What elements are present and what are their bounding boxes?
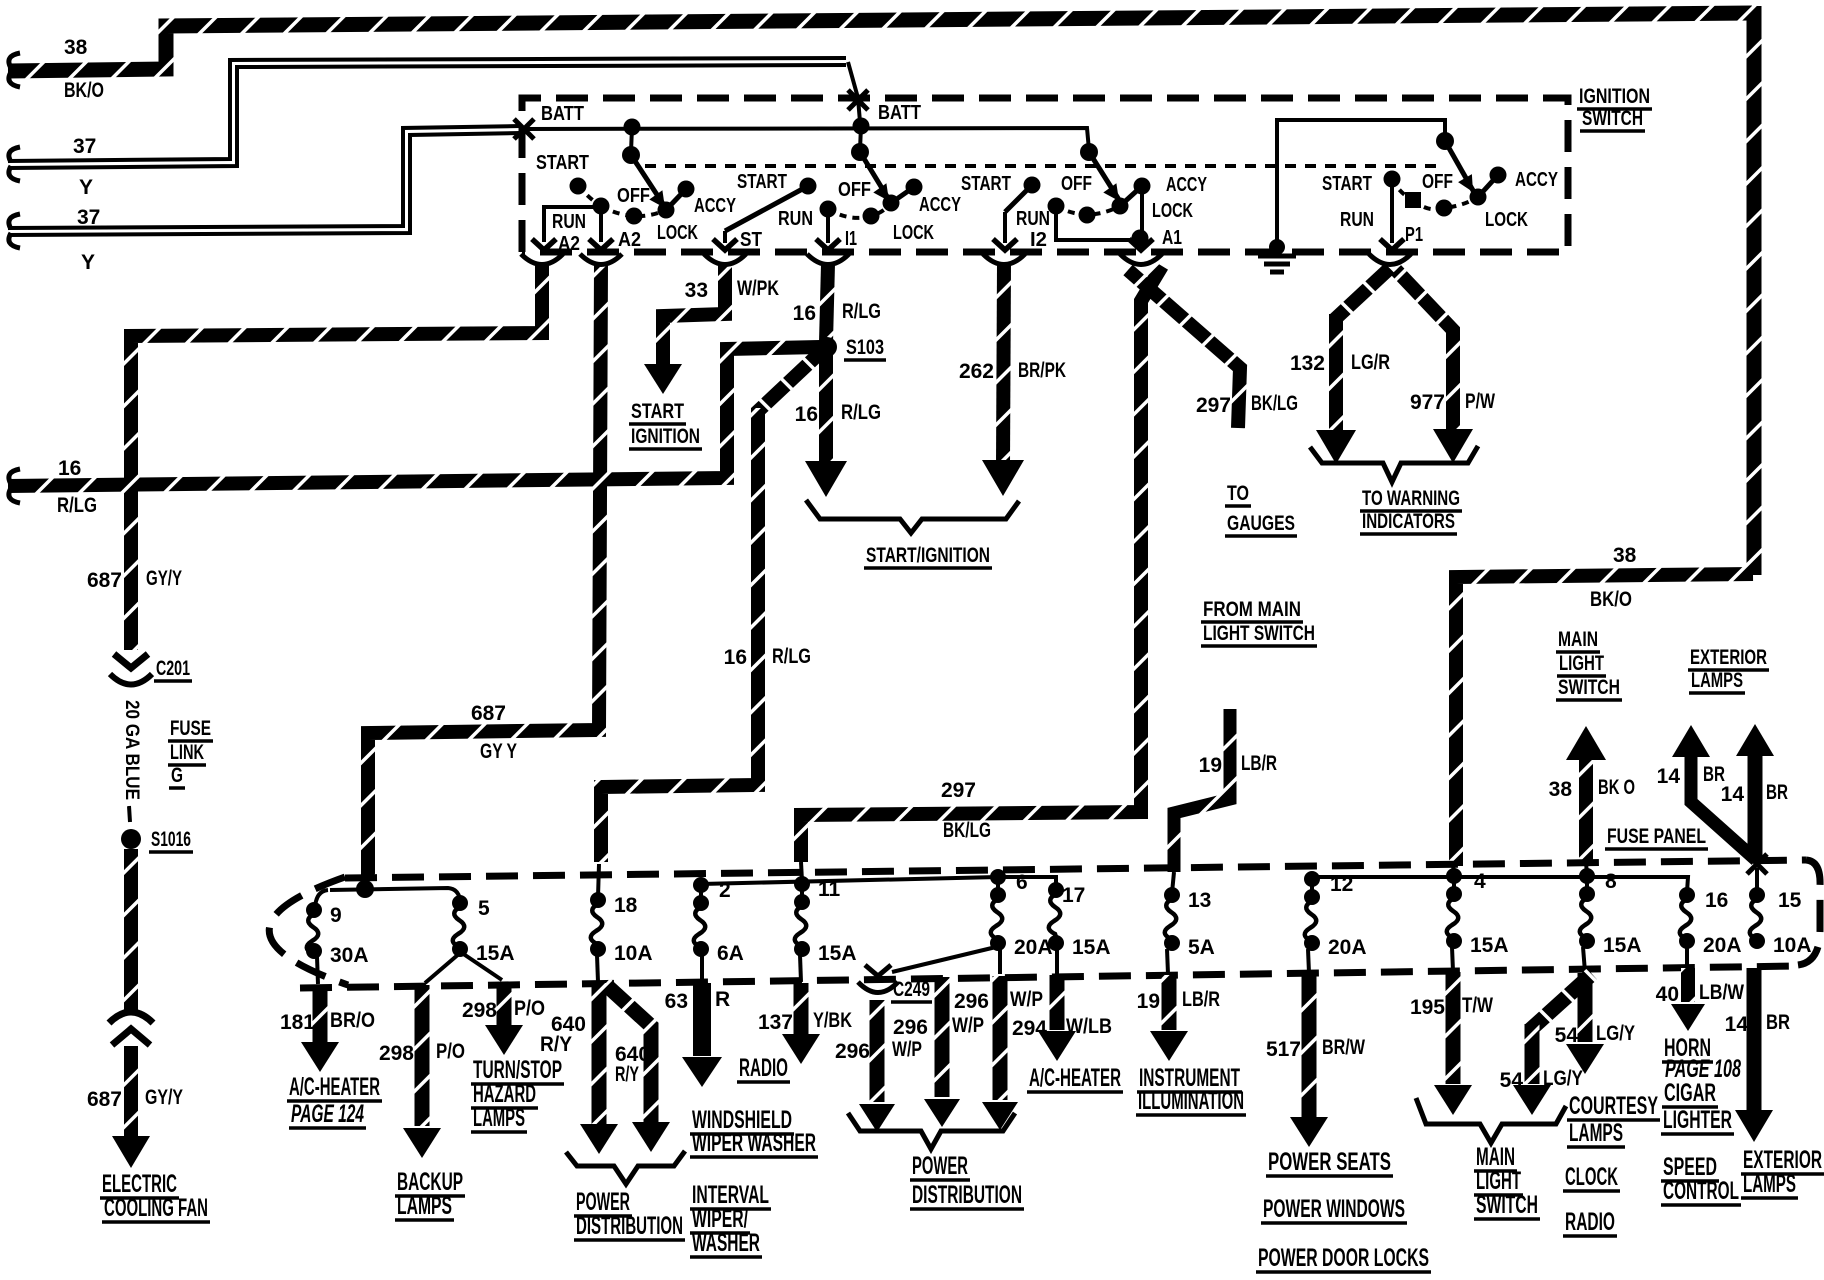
svg-text:R/LG: R/LG <box>57 494 97 517</box>
svg-text:R/Y: R/Y <box>615 1063 639 1086</box>
svg-text:S103: S103 <box>846 336 884 359</box>
svg-text:BR: BR <box>1766 1011 1790 1034</box>
svg-text:15A: 15A <box>1470 934 1509 957</box>
svg-text:IGNITION: IGNITION <box>631 425 700 448</box>
svg-text:LINK: LINK <box>170 741 204 764</box>
svg-text:LAMPS: LAMPS <box>1743 1170 1796 1198</box>
svg-text:6A: 6A <box>717 942 744 965</box>
svg-text:START: START <box>961 173 1011 195</box>
svg-text:14: 14 <box>1725 1013 1749 1036</box>
svg-text:2: 2 <box>719 879 731 902</box>
svg-text:OFF: OFF <box>1061 173 1092 195</box>
svg-text:I1: I1 <box>845 228 857 250</box>
svg-text:SWITCH: SWITCH <box>1558 676 1620 699</box>
svg-text:297: 297 <box>1196 394 1231 417</box>
svg-text:RUN: RUN <box>552 211 586 233</box>
svg-text:ILLUMINATION: ILLUMINATION <box>1138 1087 1244 1115</box>
svg-text:C201: C201 <box>156 657 190 680</box>
svg-text:12: 12 <box>1330 873 1353 896</box>
svg-text:SWITCH: SWITCH <box>1582 107 1643 130</box>
svg-text:LG/R: LG/R <box>1351 351 1390 374</box>
svg-text:INDICATORS: INDICATORS <box>1362 510 1455 533</box>
svg-text:Y: Y <box>81 251 95 274</box>
svg-text:RUN: RUN <box>1016 208 1050 230</box>
svg-text:9: 9 <box>330 904 342 927</box>
svg-text:LAMPS: LAMPS <box>473 1104 525 1132</box>
svg-text:LB/R: LB/R <box>1241 752 1277 775</box>
svg-text:BK/LG: BK/LG <box>943 819 991 842</box>
svg-text:BR/O: BR/O <box>330 1009 375 1032</box>
svg-text:R: R <box>715 988 730 1011</box>
svg-text:CONTROL: CONTROL <box>1663 1177 1739 1205</box>
svg-text:687: 687 <box>87 1088 122 1111</box>
svg-text:GY Y: GY Y <box>480 740 517 763</box>
svg-text:R/LG: R/LG <box>772 645 811 668</box>
svg-text:EXTERIOR: EXTERIOR <box>1690 646 1767 669</box>
svg-text:LB/R: LB/R <box>1182 988 1220 1011</box>
svg-text:16: 16 <box>58 457 81 480</box>
svg-text:S1016: S1016 <box>151 828 191 851</box>
svg-text:LG/Y: LG/Y <box>1543 1067 1583 1090</box>
svg-text:37: 37 <box>77 206 100 229</box>
svg-text:14: 14 <box>1721 783 1745 806</box>
svg-text:15A: 15A <box>818 942 857 965</box>
svg-text:RUN: RUN <box>1340 209 1374 231</box>
svg-text:15A: 15A <box>476 942 515 965</box>
svg-text:A2: A2 <box>558 233 580 255</box>
svg-text:11: 11 <box>818 878 841 901</box>
svg-text:977: 977 <box>1410 391 1445 414</box>
svg-text:BR/W: BR/W <box>1322 1036 1365 1059</box>
svg-text:OFF: OFF <box>1422 171 1453 193</box>
svg-text:LOCK: LOCK <box>893 222 934 244</box>
svg-text:P/O: P/O <box>436 1040 465 1063</box>
svg-text:LB/W: LB/W <box>1699 981 1744 1004</box>
svg-text:296: 296 <box>954 990 989 1013</box>
svg-text:BK/LG: BK/LG <box>1251 392 1298 415</box>
svg-text:LAMPS: LAMPS <box>397 1192 452 1220</box>
svg-text:297: 297 <box>941 779 976 802</box>
svg-text:R/LG: R/LG <box>841 401 881 424</box>
svg-text:G: G <box>171 764 183 787</box>
svg-text:W/P: W/P <box>892 1038 922 1061</box>
svg-text:181: 181 <box>280 1011 315 1034</box>
svg-text:16: 16 <box>795 403 818 426</box>
svg-text:START: START <box>536 152 589 174</box>
svg-text:I2: I2 <box>1030 229 1047 251</box>
svg-text:P/O: P/O <box>514 997 545 1020</box>
svg-text:P/W: P/W <box>1465 390 1495 413</box>
svg-text:POWER WINDOWS: POWER WINDOWS <box>1263 1195 1405 1223</box>
svg-text:BR: BR <box>1766 781 1788 804</box>
svg-text:5A: 5A <box>1188 936 1215 959</box>
svg-text:LOCK: LOCK <box>657 222 698 244</box>
svg-text:19: 19 <box>1199 754 1222 777</box>
svg-text:BATT: BATT <box>541 103 584 125</box>
svg-text:137: 137 <box>758 1011 793 1034</box>
svg-text:DISTRIBUTION: DISTRIBUTION <box>576 1212 683 1240</box>
svg-text:START/IGNITION: START/IGNITION <box>866 544 990 567</box>
svg-text:40: 40 <box>1656 983 1679 1006</box>
svg-text:15A: 15A <box>1072 936 1111 959</box>
svg-text:ST: ST <box>740 229 762 251</box>
svg-text:CLOCK: CLOCK <box>1565 1163 1618 1191</box>
svg-text:20A: 20A <box>1014 936 1053 959</box>
svg-text:POWER SEATS: POWER SEATS <box>1268 1148 1391 1176</box>
svg-text:LOCK: LOCK <box>1485 209 1528 231</box>
svg-text:ACCY: ACCY <box>694 195 736 217</box>
svg-text:38: 38 <box>1613 544 1637 567</box>
svg-text:BR/PK: BR/PK <box>1018 359 1066 382</box>
svg-text:TO: TO <box>1227 482 1249 505</box>
svg-text:8: 8 <box>1605 870 1617 893</box>
svg-text:TO WARNING: TO WARNING <box>1362 487 1460 510</box>
svg-text:30A: 30A <box>330 944 369 967</box>
svg-text:RADIO: RADIO <box>739 1054 788 1082</box>
svg-text:W/LB: W/LB <box>1066 1015 1112 1038</box>
svg-text:IGNITION: IGNITION <box>1579 85 1650 108</box>
svg-text:13: 13 <box>1188 889 1211 912</box>
svg-text:A/C-HEATER: A/C-HEATER <box>289 1073 380 1101</box>
svg-text:6: 6 <box>1016 871 1028 894</box>
svg-text:54: 54 <box>1555 1024 1579 1047</box>
svg-text:37: 37 <box>73 135 96 158</box>
svg-text:R/LG: R/LG <box>842 300 881 323</box>
svg-text:5: 5 <box>478 897 490 920</box>
svg-text:4: 4 <box>1474 870 1486 893</box>
svg-text:18: 18 <box>614 894 638 917</box>
svg-text:BATT: BATT <box>878 102 921 124</box>
svg-text:A/C-HEATER: A/C-HEATER <box>1029 1064 1121 1092</box>
svg-text:17: 17 <box>1062 884 1085 907</box>
svg-text:OFF: OFF <box>617 185 650 207</box>
svg-text:294: 294 <box>1012 1017 1047 1040</box>
svg-text:COURTESY: COURTESY <box>1569 1092 1658 1120</box>
svg-text:DISTRIBUTION: DISTRIBUTION <box>912 1181 1022 1209</box>
svg-text:687: 687 <box>471 702 506 725</box>
svg-text:54: 54 <box>1500 1069 1524 1092</box>
svg-text:38: 38 <box>64 36 88 59</box>
svg-text:20 GA BLUE: 20 GA BLUE <box>121 700 142 800</box>
svg-text:START: START <box>737 171 787 193</box>
svg-text:687: 687 <box>87 569 122 592</box>
svg-text:296: 296 <box>835 1040 870 1063</box>
svg-text:FUSE: FUSE <box>170 717 211 740</box>
svg-text:LAMPS: LAMPS <box>1569 1119 1623 1147</box>
svg-text:W/PK: W/PK <box>737 277 779 300</box>
svg-text:START: START <box>1322 173 1372 195</box>
svg-text:WASHER: WASHER <box>692 1229 760 1257</box>
svg-text:LIGHT: LIGHT <box>1559 652 1604 675</box>
svg-text:RADIO: RADIO <box>1565 1208 1615 1236</box>
svg-text:OFF: OFF <box>838 179 871 201</box>
svg-text:P1: P1 <box>1405 224 1423 246</box>
svg-text:33: 33 <box>685 279 708 302</box>
svg-text:ACCY: ACCY <box>919 194 961 216</box>
svg-text:15: 15 <box>1778 889 1802 912</box>
svg-text:FUSE PANEL: FUSE PANEL <box>1607 825 1706 848</box>
svg-text:38: 38 <box>1549 778 1573 801</box>
svg-text:POWER DOOR LOCKS: POWER DOOR LOCKS <box>1258 1244 1429 1272</box>
svg-text:517: 517 <box>1266 1038 1301 1061</box>
svg-text:C249: C249 <box>893 978 930 1001</box>
svg-text:R/Y: R/Y <box>540 1033 572 1056</box>
svg-text:RUN: RUN <box>778 208 813 230</box>
svg-text:LAMPS: LAMPS <box>1691 669 1743 692</box>
svg-text:132: 132 <box>1290 352 1325 375</box>
svg-text:10A: 10A <box>614 942 653 965</box>
svg-text:A1: A1 <box>1162 227 1182 249</box>
svg-text:298: 298 <box>462 999 497 1022</box>
svg-text:GAUGES: GAUGES <box>1227 512 1295 535</box>
svg-text:16: 16 <box>724 646 747 669</box>
svg-text:ACCY: ACCY <box>1515 169 1558 191</box>
svg-text:GY/Y: GY/Y <box>145 1086 183 1109</box>
svg-text:MAIN: MAIN <box>1558 628 1598 651</box>
svg-text:W/P: W/P <box>952 1014 984 1037</box>
svg-text:POWER: POWER <box>912 1152 968 1180</box>
svg-text:19: 19 <box>1137 990 1160 1013</box>
svg-text:BK/O: BK/O <box>1590 588 1632 611</box>
svg-text:14: 14 <box>1657 765 1681 788</box>
svg-text:63: 63 <box>665 990 688 1013</box>
svg-text:296: 296 <box>893 1016 928 1039</box>
svg-text:LIGHT SWITCH: LIGHT SWITCH <box>1203 622 1315 645</box>
svg-text:PAGE 124: PAGE 124 <box>291 1100 364 1128</box>
svg-text:Y/BK: Y/BK <box>813 1009 852 1032</box>
svg-text:WIPER WASHER: WIPER WASHER <box>692 1129 816 1157</box>
svg-text:FROM MAIN: FROM MAIN <box>1203 598 1301 621</box>
svg-text:Y: Y <box>79 176 93 199</box>
svg-text:BK/O: BK/O <box>64 79 104 102</box>
svg-text:262: 262 <box>959 360 994 383</box>
svg-text:LG/Y: LG/Y <box>1596 1022 1635 1045</box>
svg-text:T/W: T/W <box>1462 994 1493 1017</box>
svg-text:16: 16 <box>1705 889 1728 912</box>
svg-text:20A: 20A <box>1703 934 1742 957</box>
svg-text:20A: 20A <box>1328 936 1367 959</box>
svg-text:COOLING FAN: COOLING FAN <box>104 1194 208 1222</box>
svg-text:SWITCH: SWITCH <box>1476 1191 1538 1219</box>
svg-text:16: 16 <box>793 302 816 325</box>
svg-text:A2: A2 <box>618 229 641 251</box>
svg-text:W/P: W/P <box>1010 988 1043 1011</box>
svg-text:10A: 10A <box>1773 934 1812 957</box>
svg-text:START: START <box>631 400 684 423</box>
svg-text:298: 298 <box>379 1042 414 1065</box>
svg-text:GY/Y: GY/Y <box>146 567 182 590</box>
svg-text:BK O: BK O <box>1598 776 1635 799</box>
svg-text:LOCK: LOCK <box>1152 200 1193 222</box>
svg-text:CIGAR: CIGAR <box>1664 1079 1716 1107</box>
svg-text:15A: 15A <box>1603 934 1642 957</box>
svg-text:195: 195 <box>1410 996 1445 1019</box>
svg-text:ACCY: ACCY <box>1166 174 1207 196</box>
svg-text:LIGHTER: LIGHTER <box>1663 1106 1732 1134</box>
